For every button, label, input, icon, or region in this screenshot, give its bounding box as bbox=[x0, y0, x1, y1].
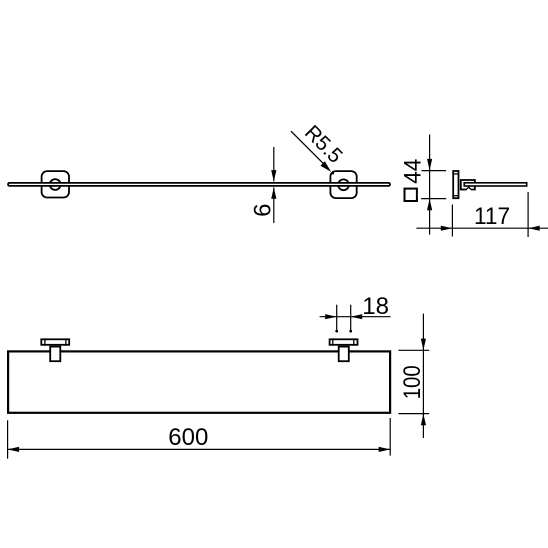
dimension 117: dimension line with outside arrows bbox=[416, 226, 548, 231]
dimension 18: dimension line with outside arrows bbox=[320, 314, 391, 319]
set-screw notch in holder bottom bbox=[466, 187, 472, 191]
square-section symbol bbox=[405, 189, 417, 201]
dimension 100: vertical dimension line with outside arrows bbox=[421, 314, 426, 438]
dimension 6: extension/dimension line above bar bbox=[271, 147, 276, 182]
dimension 117: extension lines bbox=[452, 192, 528, 237]
dimension text 600 bbox=[168, 424, 208, 451]
dimension 6: dimension line below bar with arrow bbox=[271, 187, 276, 223]
bracket B2 stem (front) bbox=[339, 347, 349, 362]
dimension text R5.5 (rotated 45°) bbox=[300, 121, 347, 168]
bracket B1 plate (plan, rounded square) bbox=[42, 171, 69, 197]
bracket B1 plate (front) bbox=[41, 338, 69, 345]
svg-text:117: 117 bbox=[474, 203, 510, 230]
dimension 44: extension lines bbox=[421, 171, 446, 199]
shelf front face rectangle bbox=[8, 351, 390, 412]
dimension text 117 bbox=[474, 203, 510, 230]
dimension text 6 bbox=[250, 204, 277, 217]
bracket B1 hole circle bbox=[50, 179, 61, 190]
dimension text 100 (rotated) bbox=[399, 365, 426, 399]
glass holder block (side) bbox=[461, 180, 475, 190]
bracket B2 hole circle bbox=[338, 179, 349, 190]
svg-text:6: 6 bbox=[250, 204, 277, 217]
glass shelf (side profile) bbox=[464, 183, 527, 186]
svg-text:44: 44 bbox=[400, 159, 427, 184]
dimension text 44 (rotated) bbox=[400, 159, 427, 184]
glass shelf edge (plan view, thin bar) bbox=[8, 183, 390, 186]
leader line for R5.5 with arrowhead at bracket corner bbox=[291, 131, 334, 174]
dimension 18: extension lines with origin dots bbox=[335, 305, 352, 333]
dimension 600: dimension line with inside arrows bbox=[8, 447, 391, 452]
dimension text 18 bbox=[362, 293, 389, 320]
svg-text:100: 100 bbox=[399, 365, 426, 399]
dimension 600: extension lines bbox=[8, 418, 391, 459]
bracket B1 stem (front) bbox=[50, 347, 60, 362]
dimension 44: vertical dimension line with outside arrows bbox=[427, 135, 432, 235]
wall plate (side profile) bbox=[452, 171, 459, 198]
dimension 100: extension lines bbox=[398, 350, 429, 413]
svg-text:18: 18 bbox=[362, 293, 389, 320]
bracket B2 plate (front) bbox=[330, 338, 358, 345]
bracket B2 plate (plan, rounded square) bbox=[330, 171, 356, 198]
svg-text:R5.5: R5.5 bbox=[300, 121, 347, 168]
svg-text:600: 600 bbox=[168, 424, 208, 451]
